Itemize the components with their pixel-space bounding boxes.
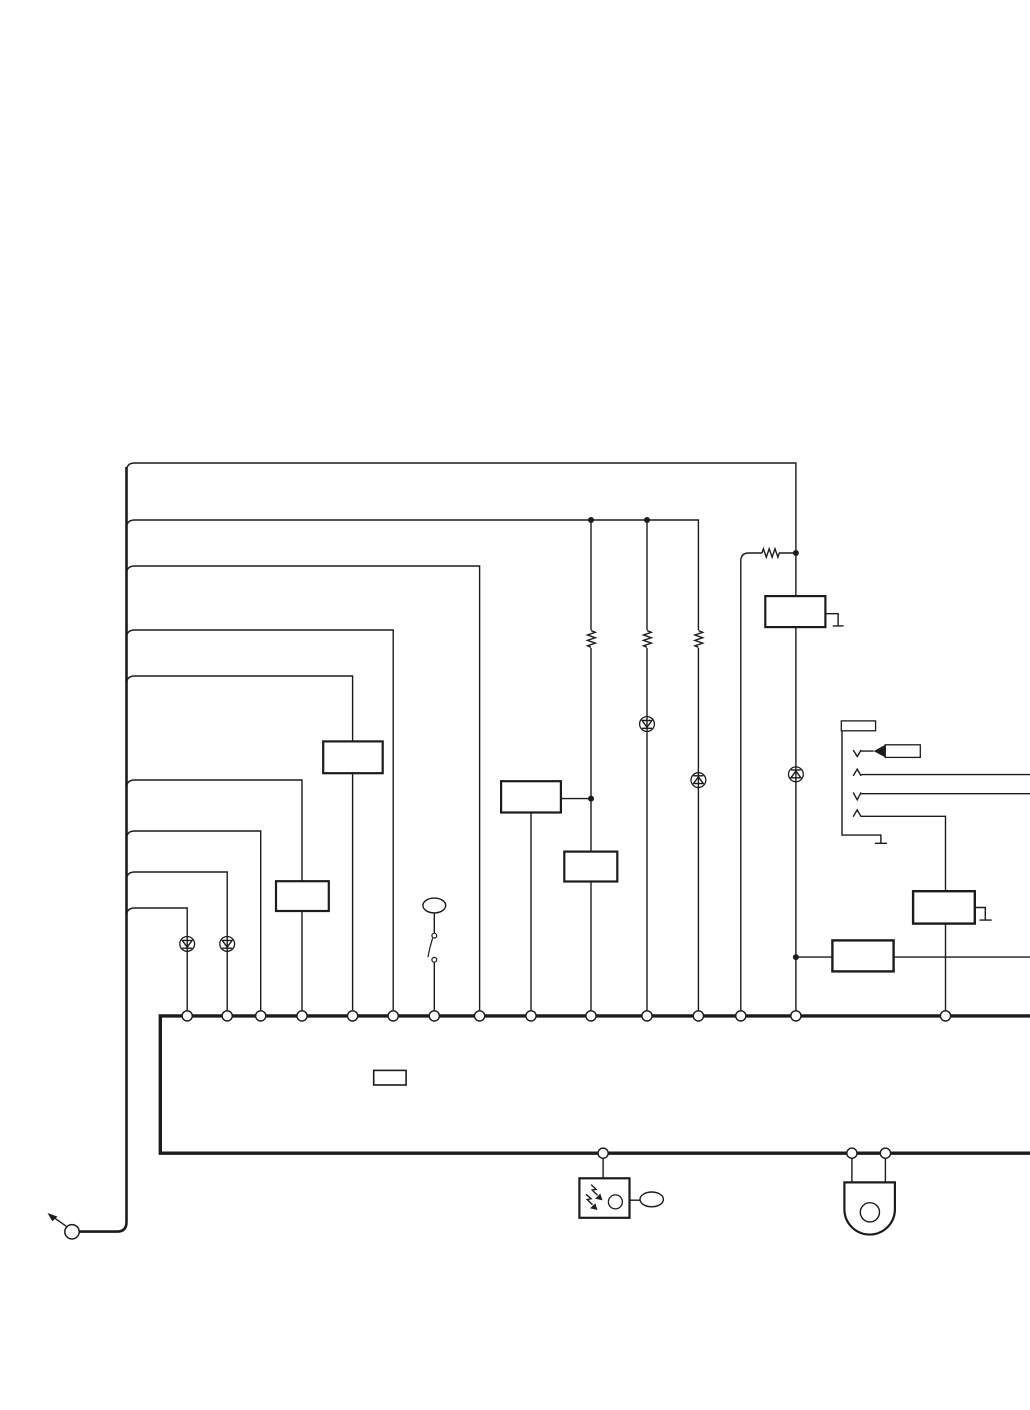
IR receiver U8 [579, 1178, 629, 1218]
LED D2 (x=187, cathode down) [180, 937, 195, 952]
node B (wire2 / x=647) [644, 517, 650, 523]
LED D3 (x=647, cathode down) [640, 717, 655, 732]
LED D1 (x=227, cathode down) [220, 937, 235, 952]
pin 1 chevron + wire (to plug P2) [853, 750, 874, 757]
part label rect (inside board) [374, 1070, 406, 1085]
wire 7 (loom tap y=831 to x=261 drop) [127, 831, 261, 1011]
wire 1 (loom tap y=463 to x=796 drop) [127, 463, 796, 596]
box U2 (on wire 6) [276, 881, 329, 911]
wire 2 (loom tap y=520 to x=698 drop) [127, 520, 699, 630]
box U6 (x=945) [913, 891, 975, 923]
wire 4 (loom tap y=630 to x=393 drop) [127, 630, 394, 1011]
wire 9 (loom tap y=908, LED D2 drop) [127, 908, 188, 1011]
wire 6 (loom tap y=780 through box U2 to bus) [127, 780, 303, 1011]
node D (box U3 output / x=591) [588, 796, 594, 802]
wire (U8 to LED/lamp E1) [630, 1199, 641, 1201]
wire segment x=796 between box U5 and bus [795, 627, 797, 1011]
wire 8 (loom tap y=872, LED D1 drop) [127, 872, 228, 1011]
wire (box U3 bottom to bus at x=531) [530, 813, 532, 1012]
wire harness bundle (left vertical loom) [79, 467, 126, 1232]
wire (box U3 output to node at x=591, y=798.6) [561, 798, 591, 800]
pin 2 chevron + wire (off page right, y=774.5) [853, 769, 1030, 776]
wire (node x=796 y=957 to box U7 and off page right) [796, 956, 1030, 958]
ground (at box U6 right pin) [975, 908, 992, 921]
bus pin circles (board top edge) [182, 1011, 951, 1021]
LED D5 (x=796, cathode up) [789, 767, 804, 782]
box U4 (on x=591 wire) [564, 852, 617, 882]
plug P2 (solid triangle + body) [874, 745, 921, 758]
resistor R4 (horizontal, y=553) [762, 549, 796, 557]
box U1 (on wire 5) [323, 741, 383, 773]
connector P1 (loom end circle) [65, 1225, 79, 1239]
connector J2 shield (top-right: cap rect, stem, ground) [841, 721, 887, 843]
box U3 [501, 781, 561, 812]
wire 5 (loom tap y=676 through box U1 to bus) [127, 676, 353, 1011]
PCB board outline (thick) [160, 1016, 1030, 1153]
switch SW1 (x=434) [423, 898, 446, 1011]
wire (box U6 bottom to bus) [945, 924, 947, 1011]
pin 4 chevron + wire (down to box U6) [853, 810, 945, 891]
node E (x=796 / y=957) [793, 954, 799, 960]
ground (at box U5 right pin) [825, 614, 843, 626]
node C (resistor R4 / x=796) [793, 550, 799, 556]
pin 3 chevron + wire (off page right, y=793.7) [853, 792, 1030, 799]
resistor R2 (vertical, x=647) [644, 631, 652, 648]
node A (wire2 / x=591) [588, 517, 594, 523]
wire (board to IR receiver U8) [602, 1158, 604, 1178]
resistor R3 (vertical, x=698) [695, 631, 703, 648]
box U5 (top right, on x=796 wire) [765, 596, 825, 627]
pin circles (board bottom edge) [598, 1148, 891, 1158]
box U7 [832, 940, 893, 971]
buzzer BZ1 [844, 1182, 895, 1234]
wire (board to buzzer pin 1) [851, 1158, 853, 1182]
wire x=647 (from node on wire 2 down to bus) [646, 520, 648, 1011]
wire x=741 (resistor R4 feed down to bus) [741, 553, 762, 1011]
arrow (off-page pointer from P1) [48, 1213, 67, 1226]
wire x=591 (from node on wire 2 down to bus) [590, 520, 592, 1011]
indicator E1 (ellipse) [640, 1192, 663, 1207]
resistor R1 (vertical, x=591) [588, 631, 596, 648]
wire 3 (loom tap y=566 to x=480 drop) [127, 566, 480, 1011]
wire (board to buzzer pin 2) [884, 1158, 886, 1182]
wire segment x=698 below resistor [697, 648, 699, 1011]
LED D4 (x=698, cathode up) [691, 773, 706, 788]
